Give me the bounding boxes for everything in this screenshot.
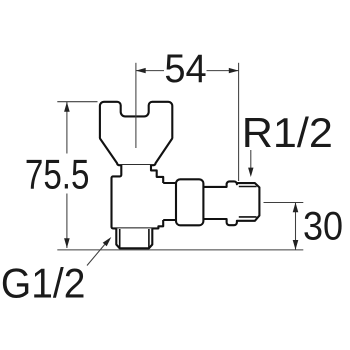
dim 54 arrow right xyxy=(229,68,239,73)
svg-text:R1/2: R1/2 xyxy=(242,110,333,156)
body outline strokes xyxy=(112,165,164,228)
neck to outlet xyxy=(163,183,176,220)
dim 75.5 line xyxy=(66,102,68,248)
dim 54 line xyxy=(136,70,239,72)
svg-text:G1/2: G1/2 xyxy=(1,260,86,306)
svg-text:54: 54 xyxy=(164,47,206,91)
dim 30 line xyxy=(295,203,297,250)
bottom thread minor lines xyxy=(120,229,149,248)
svg-text:75.5: 75.5 xyxy=(25,152,90,199)
valve body with stem and side steps xyxy=(112,165,177,228)
outlet hex nut xyxy=(176,179,203,225)
valve handle xyxy=(100,102,172,165)
dim 30 top extension xyxy=(264,202,304,204)
dim 75.5 arrow down xyxy=(64,238,70,248)
svg-text:30: 30 xyxy=(303,205,343,249)
bottom extension line (shared 75.5 / 30) xyxy=(57,249,303,251)
dim 75.5 arrow up xyxy=(64,102,70,112)
outlet mid section, collar bump and thread R1/2 contour xyxy=(203,181,259,225)
G1/2 leader arrow xyxy=(87,245,105,266)
dim 54 extension line right xyxy=(238,63,240,181)
outlet thread minor lines xyxy=(239,187,257,217)
dim 30 arrow down xyxy=(293,240,299,250)
dim 75.5 top extension xyxy=(57,101,97,103)
dim 30 arrow up xyxy=(293,203,299,213)
R1/2 leader arrow xyxy=(250,150,252,168)
dim 54 extension line left (handle centerline) xyxy=(135,63,137,148)
dim 54 arrow left xyxy=(136,68,146,73)
bottom male thread G1/2 xyxy=(116,228,152,248)
